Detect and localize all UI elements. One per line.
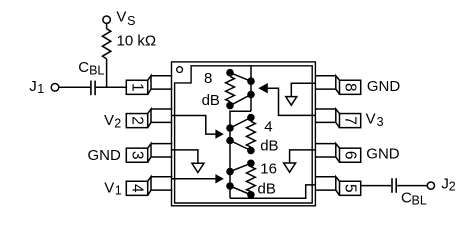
label V3: [366, 111, 384, 130]
svg-text:1: 1: [115, 184, 122, 198]
pin 1 indicator: [177, 67, 183, 73]
svg-text:2: 2: [114, 117, 121, 131]
svg-text:16: 16: [260, 160, 277, 177]
connector J1: [51, 84, 59, 92]
pin 5: [315, 177, 360, 196]
svg-text:7: 7: [342, 116, 359, 125]
connector J2: [427, 182, 434, 189]
svg-text:V: V: [104, 179, 114, 196]
svg-text:dB: dB: [260, 138, 278, 155]
pin 2: [126, 109, 172, 128]
wire J1 to capacitor: [59, 86, 90, 88]
wire pin 8 ground: [291, 83, 315, 96]
svg-text:BL: BL: [412, 194, 427, 208]
svg-text:GND: GND: [88, 147, 122, 164]
svg-text:2: 2: [129, 116, 146, 125]
diagonal d6: [230, 186, 251, 195]
resistor 16 dB: [247, 160, 256, 199]
wire resistor to node A: [106, 59, 108, 87]
svg-text:J: J: [441, 175, 449, 192]
switch arrow wiper V2: [215, 129, 223, 138]
pin 7: [315, 109, 360, 128]
svg-text:S: S: [127, 14, 135, 28]
svg-text:C: C: [78, 59, 89, 76]
diagonal d5: [230, 163, 251, 171]
wire pin 2 wiper: [172, 116, 216, 135]
label CBL right: [401, 190, 427, 208]
wire pin 7 wiper: [268, 88, 316, 115]
svg-text:8: 8: [204, 70, 212, 87]
label 8 dB: [202, 70, 220, 109]
wire output bottom to pin 5: [230, 185, 315, 198]
node dot left mid lower: [226, 137, 234, 145]
pin 3: [126, 144, 172, 163]
svg-text:4: 4: [264, 118, 272, 135]
wire jog right bus to left bus: [230, 111, 251, 198]
svg-text:6: 6: [342, 151, 359, 160]
ground arrow pin 6: [284, 163, 296, 172]
resistor R1 10 kOhm: [102, 29, 110, 59]
svg-text:1: 1: [129, 83, 146, 92]
switch arrow wiper V1: [215, 174, 223, 183]
label V2: [104, 112, 121, 131]
pin 4: [126, 177, 172, 196]
node dot right bus lower: [247, 91, 255, 99]
label J1: [29, 78, 44, 96]
wire pin 5 to capacitor: [361, 185, 391, 187]
wire pin 6 ground: [290, 150, 316, 163]
label 16 dB: [258, 160, 277, 197]
svg-text:dB: dB: [258, 180, 276, 197]
terminal VS: [103, 16, 110, 23]
wire capacitor to J2: [397, 185, 427, 187]
diagonal d1: [230, 73, 251, 82]
node dot left low upper: [226, 168, 234, 176]
svg-text:3: 3: [377, 115, 384, 129]
IC U1 outer body: [172, 62, 316, 206]
svg-text:8: 8: [342, 83, 359, 92]
wire pin1 top feed: [250, 66, 252, 111]
svg-text:V: V: [104, 112, 114, 129]
label V1: [104, 179, 122, 197]
node dot right bus upper: [247, 77, 255, 85]
label 4 dB: [260, 118, 278, 154]
IC U1 inner bevel with pin1 notch: [175, 66, 313, 203]
svg-text:BL: BL: [89, 64, 104, 78]
capacitor C2 CBL right: [392, 178, 396, 193]
label CBL left: [78, 59, 104, 78]
svg-text:2: 2: [449, 179, 456, 193]
label VS: [116, 9, 135, 28]
wire capacitor to pin 1, node A junction: [96, 86, 127, 88]
resistor 8 dB: [226, 69, 235, 110]
svg-text:3: 3: [129, 151, 146, 160]
pin 1: [126, 76, 172, 95]
svg-text:J: J: [29, 78, 37, 95]
node dot left low lower: [226, 182, 234, 190]
ground arrow pin 8: [286, 97, 297, 106]
svg-text:V: V: [116, 9, 126, 26]
svg-text:GND: GND: [367, 78, 401, 95]
capacitor C1 CBL left: [91, 81, 95, 96]
pin 8: [315, 76, 360, 95]
svg-text:1: 1: [37, 82, 44, 96]
diagonal d2: [230, 95, 251, 106]
svg-text:5: 5: [342, 184, 359, 193]
svg-text:4: 4: [129, 184, 146, 193]
svg-text:V: V: [366, 111, 376, 128]
wire pin 3 ground: [172, 150, 198, 163]
resistor 4 dB: [247, 114, 256, 155]
diagonal d3: [230, 118, 251, 129]
switch arrow wiper V3: [258, 83, 268, 93]
ground arrow pin 3: [192, 163, 204, 172]
wire pin 4 wiper: [172, 178, 216, 180]
svg-text:10 kΩ: 10 kΩ: [117, 33, 157, 50]
svg-text:dB: dB: [202, 92, 220, 109]
svg-text:GND: GND: [366, 146, 400, 163]
diagonal d4: [230, 141, 251, 151]
pin 6: [315, 144, 360, 163]
node dot left mid upper: [226, 124, 234, 132]
svg-text:C: C: [401, 190, 412, 207]
label J2: [441, 175, 455, 193]
wire VS to resistor: [106, 23, 108, 29]
